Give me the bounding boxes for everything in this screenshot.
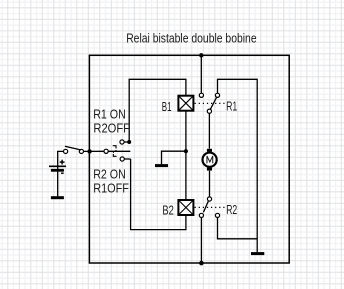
wire battery bottom to ground <box>57 172 59 197</box>
ground under battery <box>51 196 64 199</box>
wire motor to R2 common <box>209 171 211 197</box>
svg-text:R1: R1 <box>226 99 237 113</box>
contact R2 right fixed <box>215 213 219 217</box>
svg-text:B2: B2 <box>162 203 173 217</box>
switch S2 common contact <box>104 149 108 153</box>
switch S2 upper contact <box>120 140 124 144</box>
switch S1 right contact <box>79 149 83 153</box>
R1 blade <box>210 97 216 109</box>
wire R2 right contact to right rail <box>218 218 258 239</box>
svg-text:R1OFF: R1OFF <box>93 181 129 196</box>
junction on left rail <box>87 149 91 153</box>
motor M brush bottom <box>207 168 212 171</box>
switch S1 blade <box>65 146 81 150</box>
contact R1 common <box>207 109 211 113</box>
R2 actuation dotted line <box>195 206 225 208</box>
wire S1 to S2 <box>84 150 105 152</box>
battery minus sign <box>61 172 64 174</box>
contact R1 right fixed <box>215 93 219 97</box>
wire lower contact stub <box>124 158 130 160</box>
svg-text:B1: B1 <box>162 100 172 114</box>
motor M body <box>203 153 217 167</box>
wire S2 upper to B1 top <box>129 79 186 142</box>
junction bottom rail <box>199 261 204 266</box>
svg-text:R2OFF: R2OFF <box>93 121 130 136</box>
wire top rail to R1 left contact <box>200 55 202 93</box>
coil B1 <box>178 96 193 111</box>
wire B1 bottom to B2 top <box>185 111 187 200</box>
wire junction to ground <box>162 151 186 164</box>
outer supply-loop wire rectangle <box>89 55 289 263</box>
contact R2 left fixed <box>199 213 203 217</box>
S2 mechanical link dashes <box>113 146 117 157</box>
wire R1 right contact to right rail <box>218 79 258 252</box>
battery BAT1 plus plate <box>49 165 66 167</box>
coil B2 <box>178 200 193 215</box>
battery BAT1 minus plate <box>51 169 64 172</box>
ground middle <box>155 164 168 167</box>
switch S2 blade <box>108 150 130 152</box>
wire R1 common to motor <box>208 113 210 148</box>
wire battery top to switch S1 <box>58 151 64 170</box>
battery plus sign <box>60 160 65 165</box>
wire R2 left contact to bottom rail <box>200 218 202 264</box>
svg-text:Relai bistable double bobine: Relai bistable double bobine <box>126 31 256 45</box>
junction between coils <box>184 149 188 153</box>
wire S2 lower to B2 bottom <box>131 159 186 230</box>
svg-text:R1 ON: R1 ON <box>93 107 126 122</box>
R2 blade <box>203 201 208 212</box>
junction top rail <box>199 53 203 57</box>
R1 actuation dotted line <box>195 102 225 104</box>
contact R2 common <box>207 197 211 201</box>
switch S2 lower contact <box>120 157 124 161</box>
svg-text:R2: R2 <box>226 203 237 217</box>
motor M brush top <box>207 149 212 152</box>
wire upper contact stub <box>124 141 129 143</box>
switch S1 left contact <box>64 149 68 153</box>
contact R1 left fixed <box>199 93 203 97</box>
ground right <box>251 252 264 255</box>
svg-text:R2 ON: R2 ON <box>93 167 126 182</box>
motor M letter <box>207 156 213 163</box>
junction at S2 upper stub <box>127 140 131 144</box>
